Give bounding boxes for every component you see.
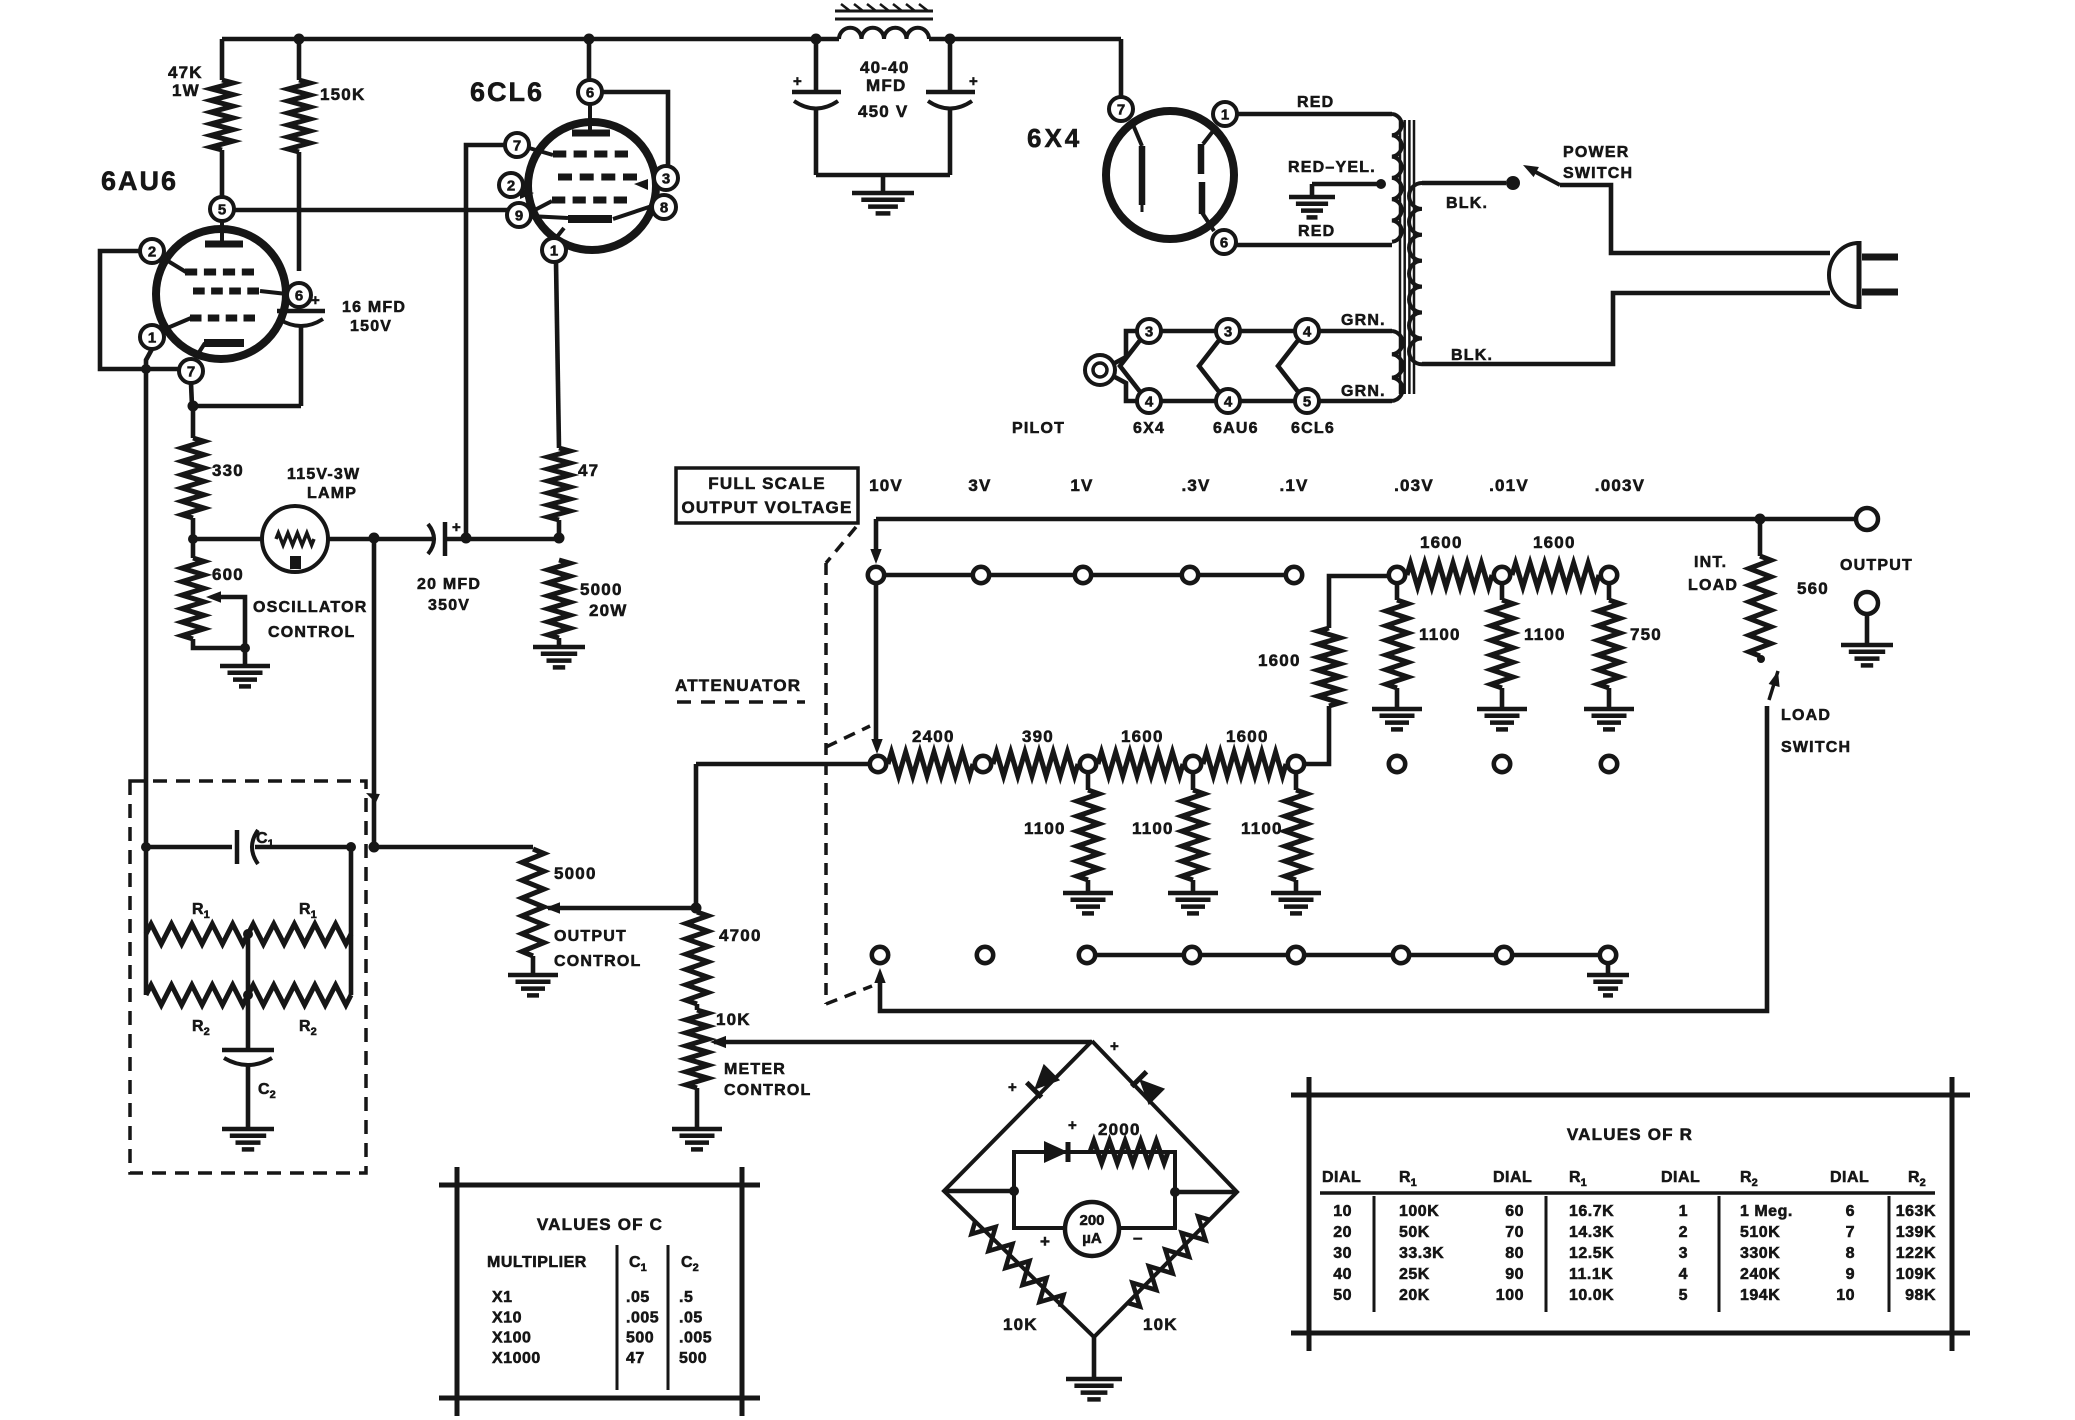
- svg-text:FULL SCALE: FULL SCALE: [708, 474, 825, 493]
- svg-text:330: 330: [212, 461, 244, 480]
- svg-text:5: 5: [1303, 393, 1311, 410]
- svg-text:LOAD: LOAD: [1688, 577, 1738, 594]
- svg-text:600: 600: [212, 565, 244, 584]
- svg-text:OSCILLATOR: OSCILLATOR: [253, 599, 368, 616]
- svg-text:5: 5: [218, 201, 226, 218]
- svg-text:10V: 10V: [869, 476, 903, 495]
- svg-text:1600: 1600: [1121, 727, 1164, 746]
- svg-text:4: 4: [1303, 323, 1312, 340]
- svg-text:+: +: [311, 292, 321, 309]
- svg-text:BLK.: BLK.: [1446, 195, 1488, 212]
- svg-text:7: 7: [187, 363, 195, 380]
- svg-text:VALUES OF C: VALUES OF C: [537, 1215, 663, 1234]
- svg-text:4: 4: [1145, 393, 1154, 410]
- svg-text:CONTROL: CONTROL: [554, 953, 642, 970]
- svg-text:GRN.: GRN.: [1341, 383, 1386, 400]
- svg-text:500: 500: [626, 1330, 654, 1347]
- svg-text:6CL6: 6CL6: [1291, 420, 1335, 437]
- svg-text:OUTPUT VOLTAGE: OUTPUT VOLTAGE: [681, 498, 852, 517]
- svg-text:OUTPUT: OUTPUT: [554, 928, 627, 945]
- svg-text:.005: .005: [626, 1309, 659, 1326]
- svg-text:9: 9: [515, 207, 523, 224]
- svg-text:CONTROL: CONTROL: [724, 1082, 812, 1099]
- svg-text:1600: 1600: [1258, 651, 1301, 670]
- svg-text:+: +: [1040, 1232, 1051, 1251]
- svg-text:4: 4: [1679, 1266, 1688, 1283]
- svg-text:METER: METER: [724, 1061, 786, 1078]
- svg-text:+: +: [1008, 1079, 1018, 1096]
- svg-text:10.0K: 10.0K: [1569, 1287, 1614, 1304]
- svg-text:47: 47: [578, 461, 599, 480]
- svg-text:1V: 1V: [1070, 476, 1093, 495]
- svg-text:3: 3: [1145, 323, 1153, 340]
- svg-text:1: 1: [1221, 106, 1229, 123]
- svg-text:1: 1: [148, 329, 156, 346]
- svg-text:450 V: 450 V: [858, 102, 908, 121]
- svg-text:3: 3: [1679, 1245, 1688, 1262]
- svg-text:6AU6: 6AU6: [1213, 420, 1259, 437]
- svg-text:6AU6: 6AU6: [101, 166, 178, 196]
- svg-text:122K: 122K: [1896, 1245, 1936, 1262]
- svg-text:6: 6: [295, 287, 303, 304]
- svg-text:80: 80: [1505, 1245, 1524, 1262]
- svg-text:60: 60: [1505, 1203, 1524, 1220]
- svg-text:.03V: .03V: [1394, 476, 1434, 495]
- svg-text:SWITCH: SWITCH: [1563, 165, 1633, 182]
- svg-text:25K: 25K: [1399, 1266, 1430, 1283]
- svg-text:20K: 20K: [1399, 1287, 1430, 1304]
- svg-text:2: 2: [1679, 1224, 1688, 1241]
- svg-text:200: 200: [1079, 1212, 1104, 1229]
- svg-text:µA: µA: [1082, 1230, 1102, 1247]
- svg-text:150V: 150V: [350, 318, 392, 335]
- svg-text:560: 560: [1797, 579, 1829, 598]
- svg-text:1100: 1100: [1024, 819, 1066, 838]
- svg-text:12.5K: 12.5K: [1569, 1245, 1614, 1262]
- svg-text:3: 3: [662, 170, 670, 187]
- svg-text:X10: X10: [492, 1309, 522, 1326]
- svg-text:390: 390: [1022, 727, 1054, 746]
- svg-text:DIAL: DIAL: [1661, 1169, 1700, 1186]
- svg-text:POWER: POWER: [1563, 144, 1629, 161]
- svg-text:LAMP: LAMP: [307, 485, 357, 502]
- svg-text:6X4: 6X4: [1027, 123, 1082, 153]
- svg-text:X1000: X1000: [492, 1350, 541, 1367]
- svg-text:750: 750: [1630, 625, 1662, 644]
- svg-text:4700: 4700: [719, 926, 762, 945]
- svg-text:20: 20: [1333, 1224, 1352, 1241]
- svg-text:10: 10: [1836, 1287, 1855, 1304]
- svg-text:DIAL: DIAL: [1322, 1169, 1361, 1186]
- svg-text:14.3K: 14.3K: [1569, 1224, 1614, 1241]
- svg-text:CONTROL: CONTROL: [268, 624, 356, 641]
- svg-text:2000: 2000: [1098, 1120, 1141, 1139]
- svg-text:115V-3W: 115V-3W: [287, 466, 360, 483]
- svg-text:10K: 10K: [716, 1010, 751, 1029]
- svg-text:350V: 350V: [428, 597, 470, 614]
- svg-text:MULTIPLIER: MULTIPLIER: [487, 1254, 587, 1271]
- svg-text:3V: 3V: [968, 476, 991, 495]
- svg-text:INT.: INT.: [1694, 554, 1727, 571]
- svg-text:9: 9: [1846, 1266, 1855, 1283]
- svg-text:100K: 100K: [1399, 1203, 1439, 1220]
- svg-text:47: 47: [626, 1350, 645, 1367]
- svg-text:330K: 330K: [1740, 1245, 1780, 1262]
- svg-text:50: 50: [1333, 1287, 1352, 1304]
- svg-text:194K: 194K: [1740, 1287, 1780, 1304]
- svg-text:5000: 5000: [580, 580, 623, 599]
- svg-text:.003V: .003V: [1595, 476, 1645, 495]
- svg-text:47K: 47K: [168, 63, 203, 82]
- svg-text:11.1K: 11.1K: [1569, 1266, 1613, 1283]
- svg-text:6: 6: [1220, 234, 1228, 251]
- svg-text:40-40: 40-40: [860, 58, 909, 77]
- svg-text:1100: 1100: [1524, 625, 1566, 644]
- svg-text:+: +: [452, 519, 462, 536]
- svg-text:+: +: [969, 73, 979, 90]
- svg-text:+: +: [1110, 1038, 1120, 1055]
- svg-text:MFD: MFD: [866, 76, 906, 95]
- svg-text:PILOT: PILOT: [1012, 420, 1065, 437]
- svg-text:1 Meg.: 1 Meg.: [1740, 1203, 1793, 1220]
- svg-text:3: 3: [1224, 323, 1232, 340]
- svg-text:6: 6: [1846, 1203, 1855, 1220]
- svg-text:10K: 10K: [1003, 1315, 1038, 1334]
- svg-text:LOAD: LOAD: [1781, 707, 1831, 724]
- svg-text:+: +: [1068, 1117, 1078, 1134]
- svg-text:1100: 1100: [1241, 819, 1283, 838]
- svg-text:510K: 510K: [1740, 1224, 1780, 1241]
- svg-text:109K: 109K: [1896, 1266, 1936, 1283]
- svg-text:DIAL: DIAL: [1493, 1169, 1532, 1186]
- svg-text:DIAL: DIAL: [1830, 1169, 1869, 1186]
- svg-text:16.7K: 16.7K: [1569, 1203, 1614, 1220]
- svg-text:SWITCH: SWITCH: [1781, 739, 1851, 756]
- svg-text:–: –: [1133, 1228, 1144, 1247]
- svg-text:33.3K: 33.3K: [1399, 1245, 1444, 1262]
- svg-text:10K: 10K: [1143, 1315, 1178, 1334]
- svg-text:500: 500: [679, 1350, 707, 1367]
- svg-text:.1V: .1V: [1279, 476, 1308, 495]
- svg-text:X1: X1: [492, 1289, 513, 1306]
- svg-text:40: 40: [1333, 1266, 1352, 1283]
- svg-text:20 MFD: 20 MFD: [417, 576, 481, 593]
- svg-text:OUTPUT: OUTPUT: [1840, 557, 1913, 574]
- svg-text:ATTENUATOR: ATTENUATOR: [675, 676, 801, 695]
- svg-text:5000: 5000: [554, 864, 597, 883]
- svg-text:2: 2: [507, 177, 515, 194]
- svg-text:16 MFD: 16 MFD: [342, 299, 406, 316]
- svg-text:+: +: [793, 73, 803, 90]
- svg-text:2400: 2400: [912, 727, 955, 746]
- svg-text:50K: 50K: [1399, 1224, 1430, 1241]
- svg-text:240K: 240K: [1740, 1266, 1780, 1283]
- svg-text:RED: RED: [1298, 223, 1335, 240]
- svg-text:X100: X100: [492, 1330, 531, 1347]
- svg-text:150K: 150K: [320, 85, 365, 104]
- svg-text:.005: .005: [679, 1330, 712, 1347]
- svg-text:6X4: 6X4: [1133, 420, 1165, 437]
- svg-text:RED: RED: [1297, 94, 1334, 111]
- svg-text:7: 7: [1846, 1224, 1855, 1241]
- svg-text:98K: 98K: [1905, 1287, 1936, 1304]
- svg-text:6CL6: 6CL6: [470, 77, 544, 107]
- svg-text:70: 70: [1505, 1224, 1524, 1241]
- svg-text:20W: 20W: [589, 601, 628, 620]
- svg-text:1600: 1600: [1533, 533, 1576, 552]
- svg-text:90: 90: [1505, 1266, 1524, 1283]
- svg-text:1: 1: [1679, 1203, 1688, 1220]
- svg-text:GRN.: GRN.: [1341, 312, 1386, 329]
- svg-text:1600: 1600: [1226, 727, 1269, 746]
- svg-text:7: 7: [513, 137, 521, 154]
- svg-text:5: 5: [1679, 1287, 1688, 1304]
- svg-text:1600: 1600: [1420, 533, 1463, 552]
- svg-text:.05: .05: [626, 1289, 650, 1306]
- svg-text:.05: .05: [679, 1309, 703, 1326]
- svg-text:.5: .5: [679, 1289, 693, 1306]
- svg-text:2: 2: [148, 243, 156, 260]
- svg-text:163K: 163K: [1896, 1203, 1936, 1220]
- svg-text:4: 4: [1224, 393, 1233, 410]
- svg-text:30: 30: [1333, 1245, 1352, 1262]
- svg-text:1100: 1100: [1419, 625, 1461, 644]
- svg-text:100: 100: [1496, 1287, 1524, 1304]
- svg-text:1W: 1W: [172, 81, 200, 100]
- svg-text:8: 8: [660, 199, 668, 216]
- svg-text:8: 8: [1846, 1245, 1855, 1262]
- svg-text:10: 10: [1333, 1203, 1352, 1220]
- svg-text:BLK.: BLK.: [1451, 347, 1493, 364]
- svg-text:.3V: .3V: [1181, 476, 1210, 495]
- svg-text:RED–YEL.: RED–YEL.: [1288, 159, 1376, 176]
- svg-text:1: 1: [550, 242, 558, 259]
- svg-text:1100: 1100: [1132, 819, 1174, 838]
- svg-text:7: 7: [1117, 101, 1125, 118]
- svg-text:6: 6: [586, 84, 594, 101]
- svg-text:.01V: .01V: [1489, 476, 1529, 495]
- svg-text:VALUES OF R: VALUES OF R: [1567, 1125, 1693, 1144]
- svg-text:139K: 139K: [1896, 1224, 1936, 1241]
